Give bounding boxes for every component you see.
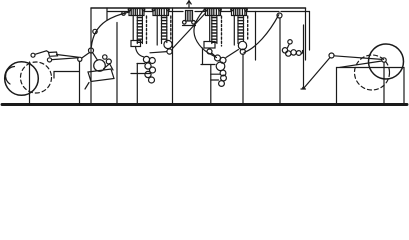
coater applicator roll <box>94 60 106 72</box>
stand pivot circle right <box>78 57 82 61</box>
guide circle at dryer 1 cap <box>122 12 126 16</box>
web diagonal B station1 exit <box>173 13 206 49</box>
dryer D2 riser into roll <box>166 41 168 43</box>
dryer D3 dashed rail <box>221 16 223 46</box>
dryer D3 bottom box <box>204 42 215 49</box>
dryer D3 cap <box>206 9 221 16</box>
dryer D3 bottom circle <box>207 49 212 54</box>
coater strut <box>110 64 114 71</box>
web line over unwind <box>35 51 49 55</box>
tower base circles <box>183 21 187 25</box>
web into coater <box>82 53 90 59</box>
station1 frame vertical <box>172 8 174 104</box>
unwind post <box>29 62 31 104</box>
riser guide circle <box>277 13 282 18</box>
dryer D2 left rail <box>156 16 158 46</box>
coater doctor circle <box>106 59 111 64</box>
inner top line segment 1 <box>108 11 129 13</box>
dryer D1 rung ladder <box>136 17 138 44</box>
dryer D2 rung ladder <box>161 17 163 44</box>
station2 web to D4 <box>226 50 238 58</box>
coater tray drain <box>85 83 89 90</box>
web diagonal F up from channel <box>304 58 331 89</box>
right channel vertical right <box>309 12 311 51</box>
coater guide circle <box>89 48 94 53</box>
link from D3 circle to train <box>212 53 216 57</box>
station1 web line to riser <box>150 52 167 53</box>
inner top line segment 7 <box>281 11 310 13</box>
station2 bracket vertical upper <box>202 48 204 65</box>
station1 bracket horizontal upper <box>137 63 145 65</box>
coater tray <box>88 69 114 82</box>
unwind web guide circle <box>31 53 35 57</box>
web line on stand top <box>52 58 78 60</box>
web line H to winder <box>334 56 382 60</box>
rewinder post <box>383 63 385 104</box>
inner top line segment 3 <box>169 11 183 13</box>
dryer D4 exit roll small <box>240 49 245 54</box>
guide circle on curve A <box>93 29 97 33</box>
right channel vertical left <box>305 8 307 60</box>
dryer D4 rung ladder <box>237 17 239 44</box>
coater doctor circle upper <box>103 55 107 59</box>
rewind roll solid circle <box>369 44 404 79</box>
dryer D1 cap <box>129 9 144 16</box>
inner top line segment 2 <box>145 11 153 13</box>
station2 roller train <box>215 55 221 61</box>
frame left vertical <box>106 8 108 20</box>
ground baseline <box>2 103 407 106</box>
station2 bracket horizontal upper <box>201 64 215 66</box>
dryer D4 left rail <box>233 16 235 46</box>
inner top line segment 5 <box>221 11 232 13</box>
station2 frame vertical upper <box>255 12 257 61</box>
rewind roll dashed circle <box>355 55 390 90</box>
station2 bracket horizontal lower <box>211 79 219 81</box>
station1 roller train <box>143 56 149 62</box>
riser vertical <box>279 18 281 104</box>
coater web wrap lower <box>104 64 110 69</box>
dryer D1 exit curve <box>136 47 144 57</box>
rewinder stand box <box>337 68 405 105</box>
web S-curve into station2 <box>194 9 217 58</box>
station2 bracket vertical <box>210 65 212 105</box>
inner top line segment 4 <box>195 11 206 13</box>
station1 bracket horizontal lower <box>131 73 150 75</box>
stand pivot circle left <box>47 58 51 62</box>
tower bulb <box>186 11 193 22</box>
dryer D3 rung ladder <box>211 17 213 44</box>
station1 bracket vertical <box>136 64 138 105</box>
dryer D4 exit roll <box>238 41 246 49</box>
tower base line <box>183 25 196 27</box>
dryer D4 dashed rail <box>247 16 249 39</box>
exhaust tower arrow <box>188 1 190 9</box>
station2 frame vertical lower <box>242 54 244 104</box>
channel foot dot <box>302 87 305 90</box>
splice table quad <box>49 52 58 56</box>
coater frame vertical left <box>90 8 92 104</box>
coater frame vertical right <box>116 23 118 105</box>
guide circle <box>329 53 334 58</box>
unwind roll solid circle <box>5 62 39 96</box>
unwind roll dashed circle <box>21 62 52 93</box>
top frame line <box>91 7 306 9</box>
winder center circle <box>382 58 386 62</box>
dryer D1 left rail <box>132 16 134 41</box>
unwind roll inner arc <box>6 67 15 85</box>
web curve D to riser <box>244 15 279 53</box>
winder web wedge lower line <box>340 61 382 67</box>
dryer D2 dashed rail <box>170 16 172 39</box>
exit roller cluster <box>288 40 292 44</box>
dryer D1 dashed rail <box>146 16 148 45</box>
station2 bracket horizontal mid <box>211 73 220 75</box>
dryer D3 left rail <box>209 16 211 42</box>
dryer D1 bottom box <box>131 41 141 47</box>
dryer D4 cap <box>232 9 247 16</box>
stand box <box>54 62 80 105</box>
web curve A into dryer 1 <box>91 12 129 47</box>
coater web wrap upper <box>93 53 98 61</box>
channel foot <box>301 88 306 90</box>
dryer D2 exit roll <box>164 40 172 48</box>
dryer D2 cap <box>153 9 169 16</box>
web line to coater <box>57 55 79 58</box>
dryer D2 exit roll small <box>167 49 172 54</box>
inner top line segment 6 <box>246 11 279 13</box>
